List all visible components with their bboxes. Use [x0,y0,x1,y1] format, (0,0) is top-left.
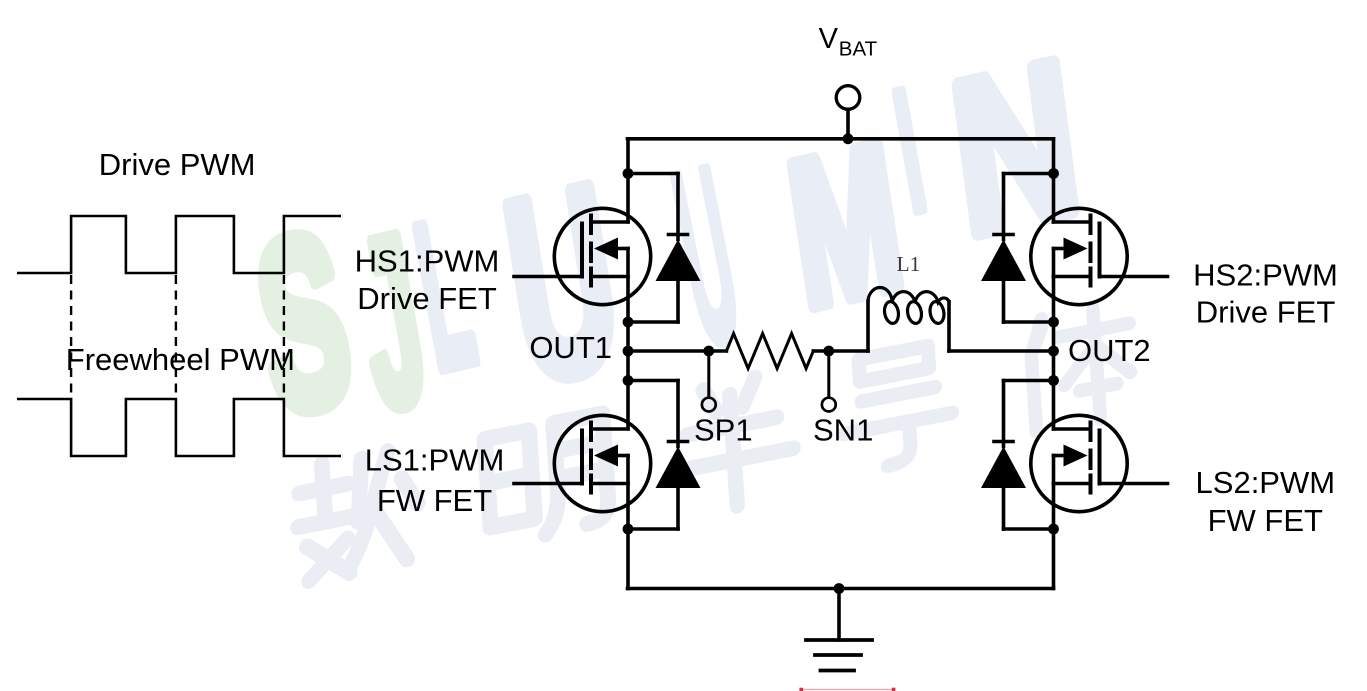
svg-text:FW FET: FW FET [1208,503,1323,538]
svg-text:SN1: SN1 [813,413,873,448]
svg-text:Drive PWM: Drive PWM [99,147,256,182]
svg-text:HS1:PWM: HS1:PWM [355,243,500,278]
svg-text:BAT: BAT [839,38,878,61]
svg-text:LS2:PWM: LS2:PWM [1196,465,1336,500]
svg-text:FW FET: FW FET [377,483,492,518]
svg-text:V: V [819,23,839,55]
svg-text:L1: L1 [897,252,921,276]
svg-text:OUT2: OUT2 [1068,333,1151,368]
svg-text:SP1: SP1 [694,413,753,448]
svg-text:LS1:PWM: LS1:PWM [365,443,505,478]
svg-text:Drive FET: Drive FET [357,281,497,316]
svg-text:Drive FET: Drive FET [1196,295,1336,330]
svg-text:HS2:PWM: HS2:PWM [1193,258,1338,293]
svg-text:Freewheel PWM: Freewheel PWM [66,342,295,377]
svg-text:OUT1: OUT1 [529,330,612,365]
